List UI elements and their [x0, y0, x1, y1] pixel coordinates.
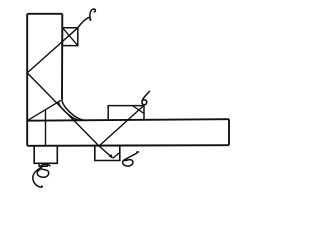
- wire right edge column: [61, 14, 63, 100]
- beam path vertical down to nozzle: [45, 110, 47, 146]
- arrowhead at beam end: [109, 154, 114, 159]
- leader squiggle right (ref 5): [123, 152, 139, 166]
- nozzle foot F1: [34, 146, 57, 164]
- nozzle tip: [39, 163, 47, 166]
- beam path rising arm to mirror box M2: [99, 105, 144, 146]
- leader squiggle bottom-left (ref 8): [33, 164, 50, 187]
- wire top edge horizontal arm: [27, 119, 229, 121]
- leader squiggle top (ref 1): [78, 9, 96, 28]
- fillet inner arc: [59, 102, 79, 120]
- wire fillet outer arc: [62, 99, 84, 120]
- beam path lower diagonal: [27, 73, 112, 158]
- corner mirror diagonal: [27, 100, 61, 120]
- mirror M2 diagonal: [132, 106, 144, 114]
- beam path upper diagonal: [27, 28, 78, 73]
- foot box F2: [95, 146, 120, 161]
- mirror box M1 on column: [62, 28, 77, 46]
- wire top edge vertical column: [27, 13, 62, 15]
- frame L-shape outline: [27, 14, 229, 146]
- reflected ray in foot box: [113, 152, 120, 158]
- wire left edge column: [26, 14, 28, 146]
- reference numeral 6: [142, 91, 150, 104]
- mirror box M2 on arm: [108, 106, 144, 121]
- wire bottom edge horizontal arm: [27, 144, 229, 147]
- wire right end of arm: [228, 119, 230, 145]
- mirror M1 diagonal: [62, 28, 77, 46]
